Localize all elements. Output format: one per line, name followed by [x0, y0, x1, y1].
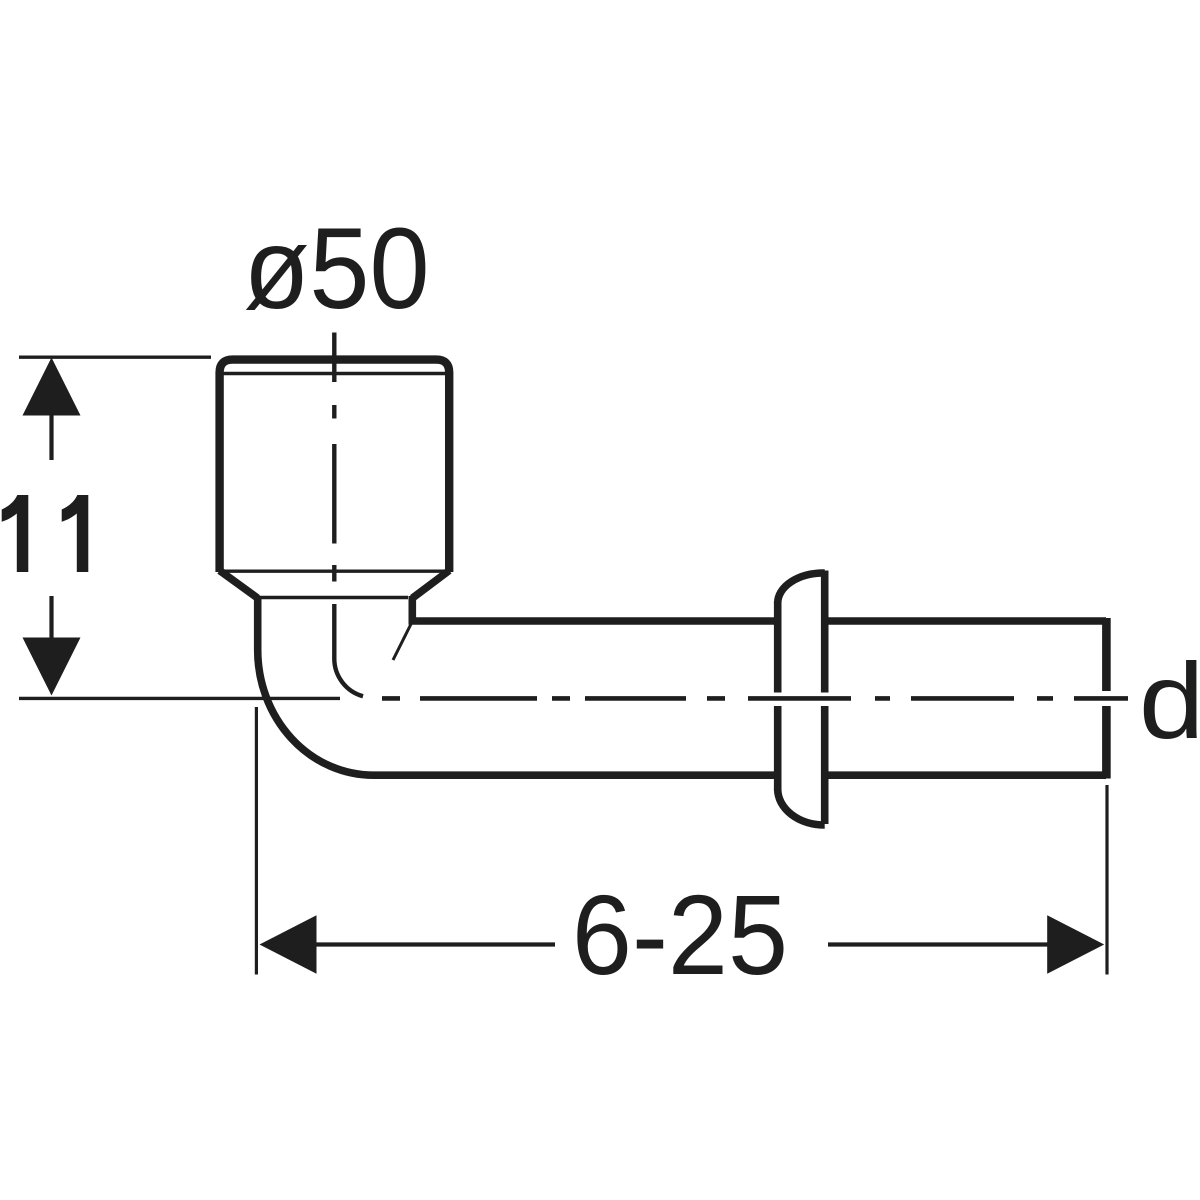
- dim 6-25: right extension line: [1105, 785, 1108, 975]
- wall flange right edge: [821, 571, 829, 825]
- dim 11: top extension line: [19, 356, 211, 359]
- neck inner line: [258, 596, 408, 599]
- inner bend seam line: [393, 624, 411, 660]
- dim 6-25: left arrowhead: [260, 915, 317, 973]
- elbow inner wall: right neck, inner corner, pipe top: [412, 596, 1106, 621]
- svg-text:d: d: [1139, 640, 1200, 760]
- bend centerline arc: [334, 604, 363, 696]
- dim 11: down arrowhead: [23, 638, 81, 696]
- socket mouth inner line: [223, 372, 447, 375]
- horizontal centerline dashes: [382, 696, 1128, 701]
- dim 6-25: right arrowhead: [1047, 915, 1104, 973]
- pipe end cap: [1102, 618, 1111, 779]
- wall flange body (white fill occludes pipe): [778, 573, 825, 825]
- dim 11: bottom extension line / centerline extension: [19, 697, 340, 700]
- right chamfer: [412, 571, 449, 599]
- dim 11: text digit 1 (first): [2, 495, 29, 572]
- dim 11: text digit 1 (second): [62, 495, 89, 572]
- wall flange bottom curve: [778, 789, 825, 825]
- dim 11: vertical dimension line: [49, 414, 53, 639]
- left chamfer: [220, 571, 258, 599]
- svg-text:6-25: 6-25: [572, 873, 788, 999]
- socket shoulder line: [220, 570, 449, 573]
- dim 11: up arrowhead: [23, 358, 81, 416]
- dim 6-25: dimension line: [315, 942, 1049, 946]
- socket body outline: [220, 360, 450, 572]
- wall flange top curve: [778, 573, 825, 603]
- dim 6-25: left extension line: [255, 707, 258, 975]
- wall flange left edge: [774, 601, 782, 791]
- svg-text:ø50: ø50: [243, 204, 429, 333]
- vertical centerline dashes: [332, 333, 336, 582]
- elbow outer wall: left neck, outer bend, pipe bottom: [258, 596, 1106, 775]
